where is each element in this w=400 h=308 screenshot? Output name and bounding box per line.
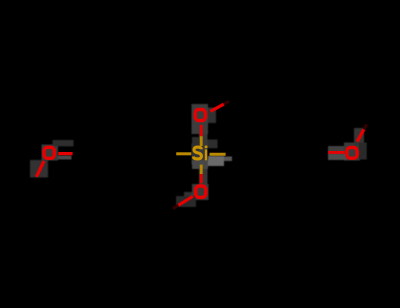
wire O4-C(methyl) dark far half xyxy=(364,124,367,129)
wire O2-C(methyl) red half xyxy=(210,104,223,111)
halo below S xyxy=(192,160,208,169)
wire Si-ring-left gold half xyxy=(176,152,191,155)
bright halo under Si right stub xyxy=(208,156,224,166)
halo column behind vertical bonds xyxy=(199,134,208,184)
halo behind left O xyxy=(42,145,59,161)
wire O3-C(methyl) dark far half xyxy=(173,205,178,208)
oxygen O1 (left methoxy) xyxy=(44,147,54,158)
wire O3-C(methyl) red half xyxy=(178,196,193,205)
wire O2-C(methyl) dark far half xyxy=(224,101,229,104)
wire O2-Si gold half xyxy=(200,136,203,146)
oxygen O2 (top methoxy on Si) xyxy=(195,110,205,121)
wire O1-C(methyl) red half xyxy=(36,161,44,177)
silicon Si1 letter i dot xyxy=(205,146,208,149)
wire O1-ring red half xyxy=(58,152,72,155)
wire Si-O3 red half xyxy=(200,174,203,183)
halo behind bottom O xyxy=(192,184,209,200)
oxygen O4 (right methoxy) xyxy=(347,148,357,159)
halo behind right O xyxy=(344,143,360,161)
jpeg artifact halos xyxy=(30,104,367,207)
halo right of Si top xyxy=(208,140,218,149)
wire O2-Si red half xyxy=(200,125,203,136)
wire O4-ring red half xyxy=(328,151,344,154)
halo left of Si xyxy=(192,144,200,165)
halo around top methoxy O xyxy=(192,104,209,134)
oxygen O3 (bottom methoxy on Si) xyxy=(196,186,206,197)
wire O4-C(methyl) red half xyxy=(357,129,364,141)
wire Si-O3 gold half xyxy=(200,165,203,174)
silicon Si1 letter i stem xyxy=(205,149,207,160)
silicon Si1 letter S xyxy=(193,147,201,159)
wire Si-ring-right gold half xyxy=(210,153,226,156)
